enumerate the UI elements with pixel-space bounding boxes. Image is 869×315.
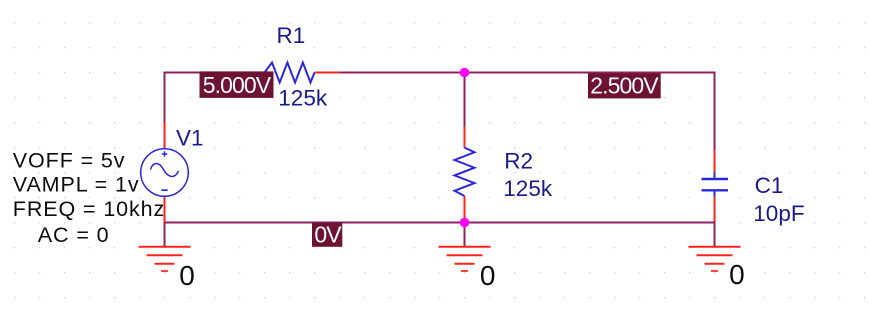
svg-text:5.000V: 5.000V <box>203 72 272 98</box>
svg-text:0: 0 <box>480 260 496 291</box>
svg-text:AC = 0: AC = 0 <box>38 223 110 247</box>
svg-text:C1: C1 <box>755 173 784 198</box>
svg-text:125k: 125k <box>503 176 553 201</box>
svg-text:0: 0 <box>729 259 745 290</box>
svg-text:FREQ = 10khz: FREQ = 10khz <box>13 197 165 221</box>
svg-text:VOFF = 5v: VOFF = 5v <box>13 148 126 172</box>
svg-text:0: 0 <box>179 260 195 291</box>
svg-text:V1: V1 <box>176 126 204 151</box>
svg-text:R1: R1 <box>277 23 306 48</box>
svg-text:R2: R2 <box>504 148 533 173</box>
svg-text:VAMPL = 1v: VAMPL = 1v <box>13 173 140 197</box>
svg-text:0V: 0V <box>314 222 342 248</box>
svg-text:125k: 125k <box>278 85 328 110</box>
svg-text:10pF: 10pF <box>753 201 804 226</box>
svg-text:2.500V: 2.500V <box>590 73 659 99</box>
